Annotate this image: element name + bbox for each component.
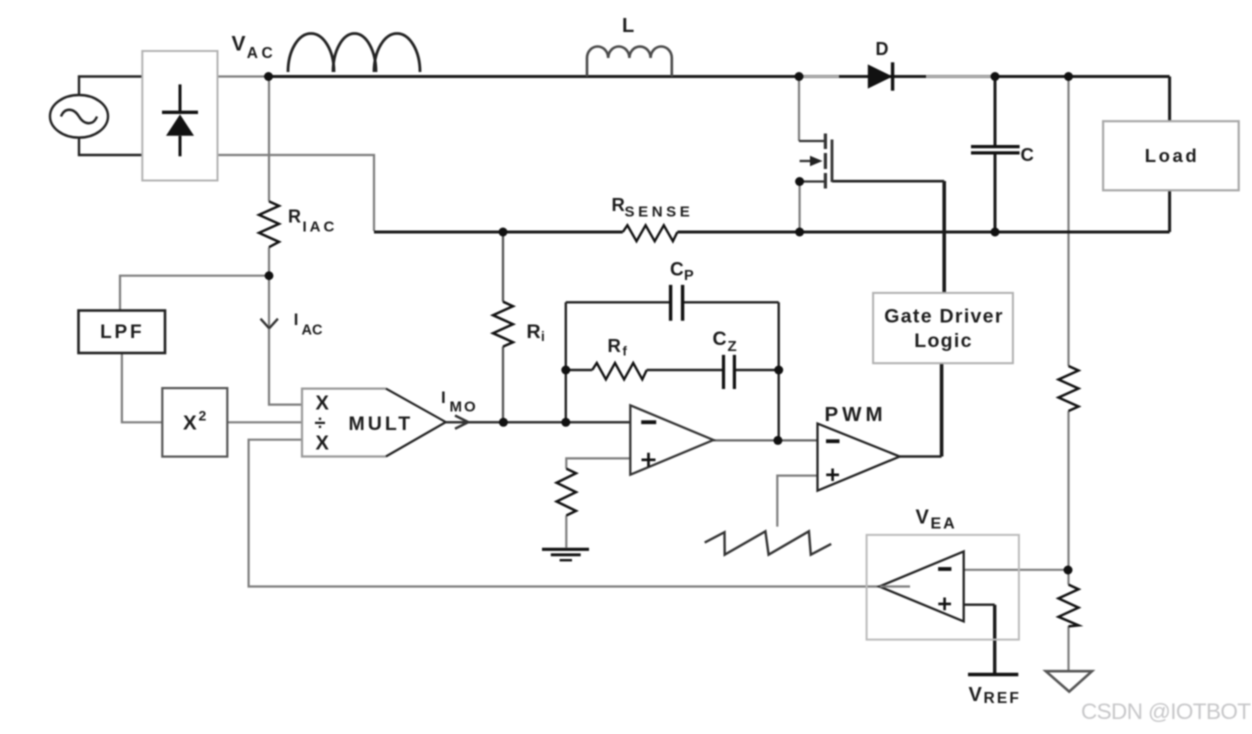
svg-text:X: X <box>183 412 197 435</box>
svg-text:LPF: LPF <box>100 322 144 343</box>
svg-text:REF: REF <box>984 690 1022 707</box>
svg-text:Logic: Logic <box>914 330 973 352</box>
svg-text:Load: Load <box>1145 145 1200 166</box>
svg-text:I: I <box>294 311 299 329</box>
svg-text:P: P <box>684 268 694 284</box>
svg-text:V: V <box>232 33 246 56</box>
svg-text:f: f <box>623 344 628 359</box>
svg-text:AC: AC <box>302 323 323 339</box>
svg-text:V: V <box>969 684 983 706</box>
svg-text:D: D <box>876 39 889 59</box>
svg-text:R: R <box>608 335 621 356</box>
svg-text:CSDN @IOTBOT: CSDN @IOTBOT <box>1081 699 1251 724</box>
svg-text:X: X <box>316 432 330 454</box>
svg-text:R: R <box>288 207 301 227</box>
svg-text:MULT: MULT <box>349 413 414 435</box>
svg-text:V: V <box>916 507 930 529</box>
svg-text:C: C <box>670 260 684 281</box>
svg-text:SENSE: SENSE <box>625 204 694 221</box>
svg-text:R: R <box>612 194 625 215</box>
svg-text:AC: AC <box>247 45 276 62</box>
svg-text:EA: EA <box>931 516 957 533</box>
svg-text:i: i <box>541 329 545 344</box>
svg-text:R: R <box>527 321 541 343</box>
svg-text:X: X <box>316 392 330 414</box>
svg-text:PWM: PWM <box>825 403 887 426</box>
svg-text:2: 2 <box>199 408 207 424</box>
svg-text:C: C <box>1021 144 1034 165</box>
svg-text:I: I <box>441 388 446 407</box>
svg-text:IAC: IAC <box>303 219 338 236</box>
svg-text:MO: MO <box>450 399 478 416</box>
svg-text:÷: ÷ <box>315 412 326 434</box>
svg-text:L: L <box>622 15 634 37</box>
svg-text:Z: Z <box>728 338 737 355</box>
svg-text:C: C <box>713 328 727 350</box>
svg-text:Gate Driver: Gate Driver <box>884 306 1003 328</box>
